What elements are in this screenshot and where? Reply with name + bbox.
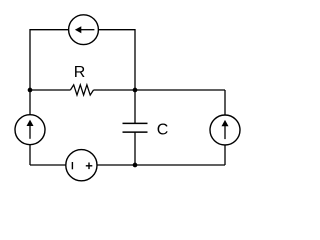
wire top (node A to mid rail): [30, 30, 135, 90]
wire mid rail upper (to capacitor): [134, 90, 136, 123]
current source I3 (right, arrow up): [210, 115, 240, 145]
junction node left: [28, 88, 33, 93]
wire mid left segment: [30, 89, 70, 91]
wire mid rail lower (capacitor to bottom): [134, 132, 136, 165]
wire left rail: [29, 90, 31, 165]
svg-text:C: C: [157, 122, 169, 139]
wire bottom: [30, 164, 225, 166]
current source I2 (left, arrow up): [15, 115, 45, 145]
voltage source V1 (minus left, plus right): [66, 150, 97, 181]
capacitor C: [123, 123, 148, 132]
svg-text:R: R: [74, 64, 86, 81]
wire mid right segment: [94, 89, 226, 91]
junction node bottom: [133, 163, 138, 168]
junction node mid: [133, 88, 138, 93]
current source I1 (top, arrow left): [69, 15, 99, 45]
resistor R: [70, 85, 93, 95]
wire right rail: [224, 90, 226, 165]
